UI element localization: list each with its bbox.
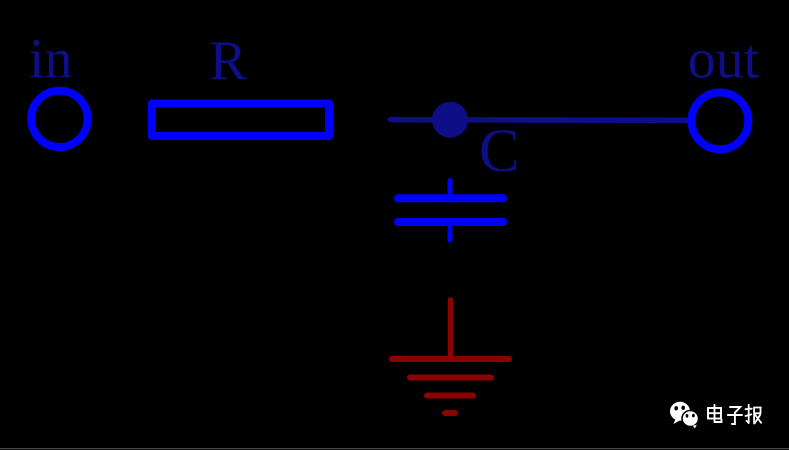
svg-text:C: C: [479, 118, 520, 185]
input terminal (circle): [31, 91, 87, 147]
capacitor C: top lead: [448, 181, 453, 199]
capacitor C: bottom lead: [448, 222, 453, 240]
svg-text:in: in: [29, 29, 73, 91]
watermark text: 电: [708, 405, 722, 422]
ground: vertical lead: [448, 300, 454, 359]
ground: bar 3: [427, 393, 473, 399]
capacitor C: bottom plate: [398, 218, 503, 226]
ground: bar 1 (top, widest): [392, 356, 509, 362]
ground: bar 4 (bottom, smallest): [445, 410, 455, 416]
wire: node to output terminal: [391, 117, 689, 123]
svg-text:R: R: [210, 30, 248, 92]
junction node dot: [432, 102, 468, 138]
output terminal (circle): [692, 93, 749, 150]
ground: bar 2: [410, 375, 491, 381]
watermark text: 报: [746, 405, 762, 424]
resistor R (body): [152, 104, 329, 137]
watermark: WeChat logo small bubble: [682, 411, 699, 429]
watermark: WeChat logo big bubble: [670, 402, 690, 424]
bottom hairline: [0, 448, 789, 449]
svg-text:out: out: [688, 29, 760, 91]
watermark text: 子: [728, 407, 742, 424]
capacitor C: top plate: [398, 194, 503, 202]
